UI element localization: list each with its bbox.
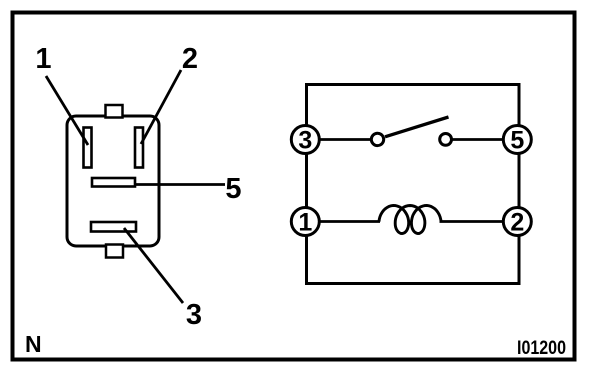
svg-text:2: 2 (182, 43, 198, 75)
leader line pin 2 (141, 70, 181, 144)
leader line pin 3 (124, 228, 183, 303)
wire switch to node5 (451, 138, 518, 141)
wire node1 to coil (306, 220, 380, 223)
relay coil (379, 206, 441, 234)
svg-text:I01200: I01200 (517, 338, 566, 359)
switch blade (385, 117, 449, 137)
svg-text:N: N (25, 331, 42, 357)
svg-text:5: 5 (510, 127, 524, 155)
switch contact fixed (440, 134, 452, 146)
relay connector body (67, 116, 159, 246)
bottom mounting tab (106, 245, 123, 258)
svg-text:3: 3 (298, 127, 312, 155)
wire coil to node2 (440, 220, 519, 223)
svg-text:5: 5 (225, 173, 241, 205)
svg-text:3: 3 (186, 299, 202, 331)
leader line pin 5 (135, 183, 226, 186)
top mounting tab (106, 105, 123, 118)
terminal slot pin 1 (84, 128, 92, 168)
node 3 (291, 126, 319, 155)
terminal slot pin 5 (92, 178, 135, 187)
leader line pin 1 (46, 76, 88, 145)
terminal slot pin 3 (91, 222, 136, 232)
terminal slot pin 2 (135, 128, 143, 168)
svg-text:2: 2 (510, 209, 524, 237)
node 5 (503, 126, 531, 155)
switch contact pivot (371, 133, 383, 145)
svg-text:1: 1 (35, 43, 51, 75)
node 2 (503, 208, 531, 237)
wire node3 to switch (306, 138, 370, 141)
circuit box outline (307, 85, 520, 284)
svg-text:1: 1 (298, 209, 312, 237)
node 1 (291, 208, 319, 237)
